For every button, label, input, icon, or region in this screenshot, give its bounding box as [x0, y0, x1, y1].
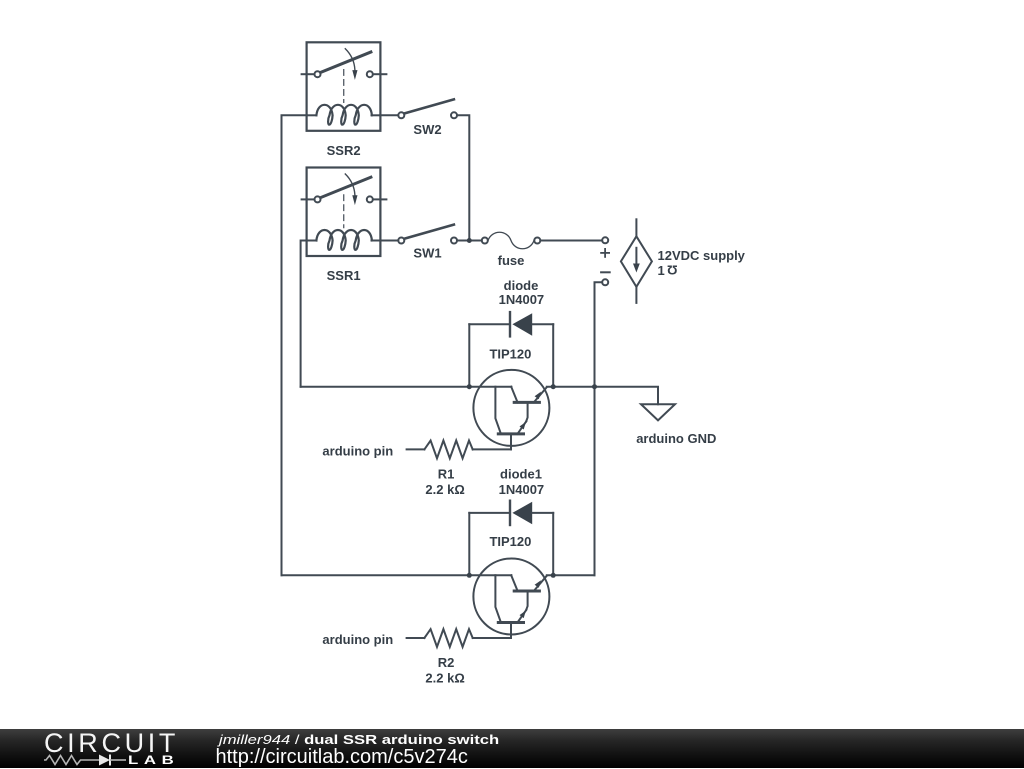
- diode D1 flyback loop: [469, 312, 553, 387]
- svg-text:TIP120: TIP120: [489, 534, 531, 549]
- diode D2 flyback loop: [469, 501, 553, 576]
- svg-text:1N4007: 1N4007: [499, 292, 545, 307]
- relay SSR2: [302, 42, 387, 131]
- svg-text:TIP120: TIP120: [489, 347, 531, 362]
- svg-text:SSR2: SSR2: [327, 143, 361, 158]
- wire SSR1 coil to SW1: [380, 240, 398, 242]
- svg-text:12VDC supply: 12VDC supply: [658, 248, 746, 263]
- svg-text:2.2 kΩ: 2.2 kΩ: [425, 671, 464, 686]
- svg-text:SW1: SW1: [413, 246, 441, 261]
- svg-text:R2: R2: [438, 655, 455, 670]
- wire supply minus down: [595, 282, 603, 575]
- ground arduino GND: [641, 404, 675, 420]
- transistor Q2 TIP120: [473, 559, 549, 639]
- resistor R2: [424, 629, 472, 647]
- wire SSR1 coil left down to channel1: [301, 241, 307, 387]
- node junction SW-drop: [467, 238, 472, 243]
- wire collector bus ch2: [282, 574, 512, 576]
- wire pin to R1: [407, 448, 425, 450]
- wire emitter bus ch2: [547, 574, 595, 576]
- wire fuse to supply: [541, 240, 602, 242]
- node junction dot ch1 supply: [592, 384, 597, 389]
- resistor R1: [424, 441, 472, 459]
- wire R1 to base: [473, 448, 511, 450]
- node junction dot ch2 diode right: [551, 573, 556, 578]
- CircuitLab logo resistor-diode glyph: [44, 753, 134, 767]
- wire SW2 to node: [457, 115, 469, 240]
- svg-text:fuse: fuse: [498, 253, 525, 268]
- node junction dot ch2 left: [467, 573, 472, 578]
- wire R2 to base: [473, 637, 511, 639]
- wire emitter bus ch1: [547, 387, 658, 405]
- node junction dot ch1 left: [467, 384, 472, 389]
- transistor Q1 TIP120: [473, 370, 549, 450]
- switch SW2: [398, 99, 457, 118]
- svg-text:R1: R1: [438, 467, 455, 482]
- svg-text:1N4007: 1N4007: [499, 482, 545, 497]
- wire SSR2 coil left down to channel2: [282, 115, 307, 575]
- svg-text:arduino pin: arduino pin: [322, 632, 393, 647]
- wire SSR2 coil to SW2: [380, 114, 398, 116]
- svg-text:diode: diode: [504, 278, 539, 293]
- svg-text:diode1: diode1: [500, 467, 542, 482]
- voltage source V1 12VDC supply: [601, 219, 652, 303]
- svg-text:arduino pin: arduino pin: [322, 443, 393, 458]
- svg-text:SW2: SW2: [413, 122, 441, 137]
- fuse F1: [482, 232, 541, 249]
- relay SSR1: [302, 168, 387, 257]
- svg-text:arduino GND: arduino GND: [636, 431, 716, 446]
- wire collector bus ch1: [301, 386, 512, 388]
- svg-text:1: 1: [658, 263, 665, 278]
- svg-text:Ω: Ω: [667, 262, 677, 277]
- svg-text:SSR1: SSR1: [327, 268, 361, 283]
- wire SW1 to fuse: [457, 240, 481, 242]
- wire pin to R2: [407, 637, 425, 639]
- switch SW1: [398, 225, 457, 244]
- node junction dot ch1 diode right: [551, 384, 556, 389]
- svg-text:2.2 kΩ: 2.2 kΩ: [425, 482, 464, 497]
